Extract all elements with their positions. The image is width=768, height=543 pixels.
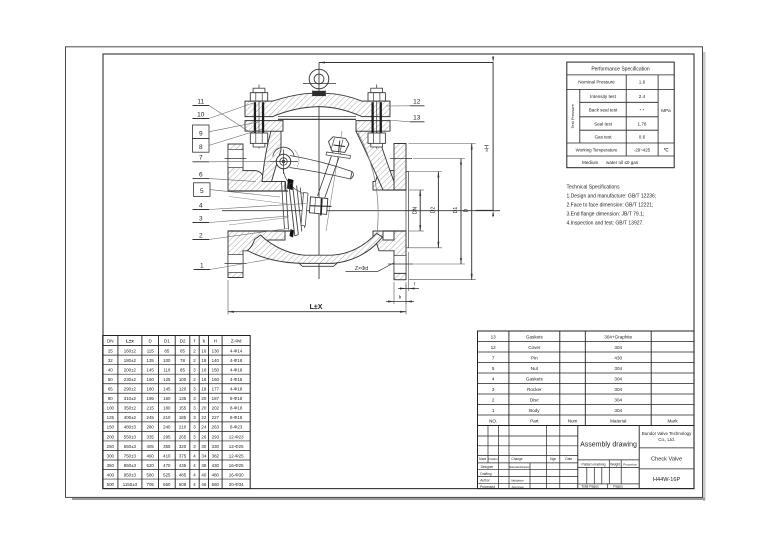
left bore lines	[228, 190, 288, 192]
svg-text:2.4: 2.4	[639, 94, 646, 99]
stem top nut	[329, 137, 350, 153]
dimension f	[408, 252, 410, 291]
svg-text:227: 227	[212, 415, 220, 420]
svg-text:150: 150	[107, 425, 115, 430]
outer border frame	[66, 47, 703, 498]
svg-text:177: 177	[212, 387, 220, 392]
svg-text:Sign: Sign	[550, 457, 557, 461]
svg-text:30: 30	[201, 444, 206, 449]
svg-text:8-Φ18: 8-Φ18	[230, 415, 243, 420]
left flange hatched lower	[228, 231, 285, 278]
svg-text:Intensity test: Intensity test	[590, 94, 617, 99]
svg-text:145: 145	[147, 368, 155, 373]
svg-text:46: 46	[201, 482, 206, 487]
svg-text:D2: D2	[431, 207, 437, 214]
svg-text:78: 78	[180, 358, 185, 363]
svg-text:115: 115	[147, 348, 155, 353]
dimension L line	[228, 311, 406, 313]
disc washer	[301, 193, 308, 227]
svg-text:650: 650	[163, 482, 171, 487]
svg-text:1: 1	[492, 408, 495, 413]
pipe axis centerline	[222, 210, 500, 212]
svg-text:Cover: Cover	[528, 345, 541, 350]
svg-text:480: 480	[212, 472, 220, 477]
svg-text:8-Φ23: 8-Φ23	[230, 425, 243, 430]
dimension D	[409, 143, 476, 145]
svg-text:293: 293	[212, 434, 220, 439]
svg-text:Approval: Approval	[512, 485, 524, 489]
left flange bolt circle ticks	[225, 158, 247, 160]
svg-text:950±3: 950±3	[124, 472, 137, 477]
svg-text:200: 200	[107, 434, 115, 439]
svg-text:20: 20	[201, 396, 206, 401]
svg-text:230±2: 230±2	[124, 377, 137, 382]
svg-text:120: 120	[179, 387, 187, 392]
svg-text:10: 10	[197, 111, 205, 118]
title block grid	[478, 426, 695, 489]
svg-text:Technical Specifications: Technical Specifications	[567, 185, 621, 191]
svg-text:263: 263	[212, 425, 220, 430]
svg-text:125: 125	[163, 377, 171, 382]
svg-text:187: 187	[212, 396, 220, 401]
rocker arm end boss	[351, 172, 354, 180]
svg-text:Rocker: Rocker	[527, 387, 542, 392]
svg-text:3: 3	[492, 387, 495, 392]
right flange hole bottom hatch	[394, 273, 406, 279]
hinge pin boss projection	[295, 150, 299, 167]
svg-text:Gaskets: Gaskets	[526, 334, 544, 339]
svg-text:240: 240	[163, 425, 171, 430]
svg-text:5: 5	[492, 366, 495, 371]
svg-text:Gaskets: Gaskets	[526, 376, 544, 381]
bonnet stud bolt right	[376, 85, 378, 149]
svg-text:12: 12	[491, 345, 497, 350]
svg-text:100: 100	[179, 377, 187, 382]
svg-text:18: 18	[201, 358, 206, 363]
bonnet stud bolt left	[258, 85, 260, 149]
svg-text:Drafting: Drafting	[480, 472, 491, 476]
svg-text:16: 16	[201, 348, 206, 353]
svg-text:Medium: Medium	[582, 160, 599, 165]
dimension table grid	[103, 336, 251, 489]
svg-text:- -: - -	[640, 107, 645, 113]
svg-text:D1: D1	[453, 207, 459, 214]
right flange hatched upper	[373, 144, 406, 191]
svg-text:130: 130	[212, 348, 220, 353]
part number 8 callout	[193, 139, 210, 153]
svg-text:500: 500	[107, 482, 115, 487]
svg-text:32: 32	[108, 358, 113, 363]
svg-text:1.Design and manufacture: GB/T: 1.Design and manufacture: GB/T 12236;	[567, 194, 657, 200]
svg-text:435: 435	[179, 463, 187, 468]
svg-text:350: 350	[107, 463, 115, 468]
seat seal lower black	[290, 229, 295, 238]
svg-text:140: 140	[212, 358, 220, 363]
svg-text:160±2: 160±2	[124, 348, 137, 353]
svg-text:12-Φ25: 12-Φ25	[229, 453, 244, 458]
hinge pin crosshair	[270, 161, 298, 163]
svg-text:20: 20	[201, 406, 206, 411]
svg-text:155: 155	[179, 406, 187, 411]
svg-text:18: 18	[201, 377, 206, 382]
svg-text:135: 135	[179, 396, 187, 401]
svg-text:400±2: 400±2	[124, 415, 137, 420]
right flange raised face	[406, 172, 409, 248]
svg-text:Validation: Validation	[511, 479, 524, 483]
svg-text:18: 18	[201, 387, 206, 392]
dimension H top line	[319, 62, 493, 64]
svg-text:160: 160	[163, 396, 171, 401]
svg-text:3: 3	[199, 215, 203, 222]
svg-text:110: 110	[163, 368, 171, 373]
left flange bolt hole upper	[228, 150, 243, 168]
svg-text:50: 50	[108, 377, 113, 382]
svg-text:Mark: Mark	[479, 457, 486, 461]
bill of materials table grid	[478, 331, 695, 426]
left flange hatched upper	[228, 144, 285, 191]
svg-text:100: 100	[107, 406, 115, 411]
disc nut crosshair	[310, 205, 332, 208]
svg-text:Processed: Processed	[480, 485, 495, 489]
svg-text:25: 25	[108, 348, 113, 353]
svg-text:300: 300	[107, 453, 115, 458]
svg-text:430: 430	[212, 463, 220, 468]
svg-text:2: 2	[492, 397, 495, 402]
svg-text:290±2: 290±2	[124, 387, 137, 392]
svg-text:b: b	[399, 295, 402, 301]
hinge pin	[276, 154, 290, 168]
svg-text:160: 160	[147, 377, 155, 382]
right bore lines	[383, 189, 406, 191]
svg-text:12: 12	[413, 98, 421, 105]
svg-text:Test Pressure: Test Pressure	[570, 103, 575, 128]
svg-text:16-Φ30: 16-Φ30	[229, 472, 244, 477]
svg-text:Material: Material	[610, 418, 626, 423]
svg-text:13: 13	[491, 334, 497, 339]
svg-text:4.Inspection and test: GB/T 13: 4.Inspection and test: GB/T 13927.	[567, 221, 644, 227]
svg-text:195: 195	[147, 396, 155, 401]
left flange bolt hole lower	[228, 255, 243, 273]
svg-text:Standardization: Standardization	[509, 465, 530, 469]
svg-text:38: 38	[201, 463, 206, 468]
svg-text:202: 202	[212, 406, 220, 411]
svg-text:705: 705	[147, 482, 155, 487]
svg-text:295: 295	[163, 434, 171, 439]
right body neck wall hatched	[356, 131, 394, 190]
svg-text:16-Φ25: 16-Φ25	[229, 463, 244, 468]
svg-text:Weight: Weight	[610, 462, 620, 466]
dimension DN	[409, 189, 424, 191]
svg-text:Pattern marking: Pattern marking	[582, 462, 606, 466]
svg-text:Proportion: Proportion	[623, 462, 637, 466]
svg-text:Part: Part	[530, 418, 539, 423]
svg-text:Pages: Pages	[613, 485, 623, 489]
svg-text:4-Φ18: 4-Φ18	[230, 377, 243, 382]
svg-text:0.6: 0.6	[639, 135, 646, 140]
svg-text:Working Temperature: Working Temperature	[576, 148, 618, 153]
svg-text:L±X: L±X	[310, 304, 323, 311]
svg-text:485: 485	[179, 472, 187, 477]
page shadow	[703, 52, 706, 501]
svg-text:≈H: ≈H	[484, 145, 490, 152]
svg-text:18: 18	[201, 368, 206, 373]
inlet taper lines	[229, 197, 287, 205]
svg-text:4: 4	[199, 202, 203, 209]
right interior chamber curve	[358, 133, 378, 234]
svg-text:410: 410	[163, 453, 171, 458]
svg-text:304: 304	[614, 397, 622, 402]
right flange hatched lower	[373, 231, 406, 280]
svg-text:Seal test: Seal test	[594, 121, 613, 126]
eyebolt ring	[309, 69, 329, 89]
svg-text:Nut: Nut	[531, 366, 539, 371]
body bottom wall hatched	[248, 233, 383, 263]
svg-text:85: 85	[164, 348, 169, 353]
dimension b	[393, 282, 395, 304]
svg-text:Co., Ltd.: Co., Ltd.	[658, 437, 675, 442]
svg-text:4-Φ18: 4-Φ18	[230, 368, 243, 373]
svg-text:1: 1	[200, 262, 204, 269]
svg-text:650±3: 650±3	[124, 444, 137, 449]
svg-text:335: 335	[147, 434, 155, 439]
right flange bolt circle ticks	[390, 158, 412, 160]
svg-text:12-Φ23: 12-Φ23	[229, 434, 244, 439]
svg-text:2: 2	[199, 232, 203, 239]
svg-text:11: 11	[197, 98, 204, 105]
svg-text:382: 382	[212, 453, 220, 458]
svg-text:NO.: NO.	[489, 418, 497, 423]
svg-text:Date: Date	[565, 457, 572, 461]
svg-text:355: 355	[163, 444, 171, 449]
svg-text:375: 375	[179, 453, 187, 458]
svg-text:4-Φ18: 4-Φ18	[230, 387, 243, 392]
svg-text:26: 26	[201, 434, 206, 439]
svg-text:DN: DN	[107, 338, 114, 343]
svg-text:180±2: 180±2	[124, 358, 137, 363]
svg-text:40: 40	[201, 472, 206, 477]
body top flange hatched left	[245, 121, 283, 132]
svg-text:304: 304	[614, 408, 622, 413]
seat ring	[282, 182, 285, 229]
svg-text:320: 320	[179, 444, 187, 449]
hinge pin boss	[273, 147, 294, 156]
eyebolt centerline	[303, 83, 336, 85]
svg-text:9: 9	[199, 130, 203, 137]
svg-text:1.6: 1.6	[639, 80, 646, 85]
svg-text:Total Pages: Total Pages	[581, 485, 599, 489]
svg-text:405: 405	[147, 444, 155, 449]
svg-text:65: 65	[108, 387, 113, 392]
svg-text:DN: DN	[413, 207, 419, 215]
svg-text:D1: D1	[164, 338, 170, 343]
svg-text:Bundor Valve Technology: Bundor Valve Technology	[642, 431, 692, 436]
svg-text:Position: Position	[488, 457, 499, 461]
body bottom pad	[299, 263, 337, 266]
svg-text:-29~425: -29~425	[634, 148, 651, 153]
svg-text:135: 135	[147, 358, 155, 363]
disc stem	[318, 150, 334, 196]
disc plate	[289, 184, 295, 236]
svg-text:525: 525	[163, 472, 171, 477]
svg-text:180: 180	[147, 387, 155, 392]
svg-text:480±3: 480±3	[124, 425, 137, 430]
inner border frame	[103, 54, 694, 489]
svg-text:Change: Change	[511, 457, 522, 461]
svg-text:H44W-16P: H44W-16P	[653, 477, 681, 483]
svg-text:6: 6	[199, 171, 203, 178]
svg-text:310±2: 310±2	[124, 396, 137, 401]
svg-text:Pin: Pin	[531, 355, 538, 360]
right flange bolt hole	[394, 255, 406, 273]
svg-text:8-Φ18: 8-Φ18	[230, 406, 243, 411]
svg-text:304+Graphite: 304+Graphite	[604, 334, 632, 339]
svg-text:850±3: 850±3	[124, 463, 137, 468]
svg-text:608: 608	[179, 482, 187, 487]
svg-text:5: 5	[200, 188, 204, 195]
svg-text:Back seal test: Back seal test	[589, 108, 618, 113]
svg-text:Performance Specification: Performance Specification	[591, 67, 650, 73]
svg-text:245: 245	[147, 415, 155, 420]
svg-text:Z-Φd: Z-Φd	[231, 338, 242, 343]
disc stem centerline	[326, 131, 342, 231]
svg-text:Designer: Designer	[481, 465, 495, 469]
svg-text:24: 24	[201, 425, 206, 430]
svg-text:Gas test: Gas test	[594, 135, 612, 140]
svg-text:4-Φ18: 4-Φ18	[230, 358, 243, 363]
eyebolt shank	[313, 91, 326, 96]
svg-text:Nominal Pressure: Nominal Pressure	[578, 80, 615, 85]
svg-text:560: 560	[212, 482, 220, 487]
svg-text:304: 304	[614, 366, 622, 371]
svg-text:200±2: 200±2	[124, 368, 137, 373]
body top flange hatched right	[356, 121, 390, 132]
dimension L extension lines	[227, 280, 229, 315]
svg-text:D2: D2	[180, 338, 186, 343]
svg-text:℃: ℃	[664, 148, 669, 153]
svg-text:22: 22	[201, 415, 206, 420]
svg-text:MPa: MPa	[661, 108, 671, 113]
svg-text:210: 210	[163, 415, 171, 420]
seat seal upper black	[287, 179, 294, 191]
svg-text:H: H	[214, 338, 217, 343]
svg-text:280: 280	[147, 425, 155, 430]
svg-text:520: 520	[147, 463, 155, 468]
svg-text:350±2: 350±2	[124, 406, 137, 411]
svg-text:460: 460	[147, 453, 155, 458]
svg-text:210: 210	[179, 425, 187, 430]
svg-text:180: 180	[163, 406, 171, 411]
svg-text:304: 304	[614, 387, 622, 392]
svg-text:250: 250	[107, 444, 115, 449]
title block middle cells	[578, 459, 639, 461]
svg-text:470: 470	[163, 463, 171, 468]
svg-text:750±3: 750±3	[124, 453, 137, 458]
svg-text:2.Face to face dimension: GB/T: 2.Face to face dimension: GB/T 12221;	[567, 203, 654, 209]
svg-text:185: 185	[179, 415, 187, 420]
svg-text:8-Φ18: 8-Φ18	[230, 396, 243, 401]
svg-text:12-Φ25: 12-Φ25	[229, 444, 244, 449]
svg-text:580: 580	[147, 472, 155, 477]
disc nut	[309, 197, 327, 215]
dimension H vertical line	[492, 63, 494, 211]
svg-text:304: 304	[614, 345, 622, 350]
svg-text:Disc: Disc	[530, 397, 540, 402]
bonnet gasket lines	[278, 115, 356, 117]
svg-text:330: 330	[212, 444, 220, 449]
svg-text:Body: Body	[529, 408, 540, 413]
svg-text:4-Φ14: 4-Φ14	[230, 348, 243, 353]
svg-text:1.76: 1.76	[638, 121, 647, 126]
dimension D1	[413, 158, 465, 160]
stem nut crosshair	[334, 145, 346, 147]
svg-text:7: 7	[199, 155, 203, 162]
title block company cells	[639, 447, 694, 449]
svg-text:150: 150	[212, 368, 220, 373]
rocker arm	[290, 156, 353, 180]
svg-text:304: 304	[614, 376, 622, 381]
svg-text:85: 85	[180, 368, 185, 373]
svg-text:Z×Φd: Z×Φd	[355, 266, 368, 272]
svg-text:7: 7	[492, 355, 495, 360]
left body neck wall hatched	[262, 131, 281, 181]
svg-text:40: 40	[108, 368, 113, 373]
svg-text:80: 80	[108, 396, 113, 401]
part number 9 callout	[193, 125, 210, 139]
svg-text:water oil ≤0 gas: water oil ≤0 gas	[606, 160, 639, 165]
svg-text:400: 400	[107, 472, 115, 477]
svg-text:145: 145	[163, 387, 171, 392]
svg-text:L±x: L±x	[126, 338, 134, 343]
svg-text:13: 13	[413, 114, 421, 121]
svg-text:Assembly drawing: Assembly drawing	[580, 442, 637, 449]
svg-text:160: 160	[212, 377, 220, 382]
svg-text:Author: Author	[480, 479, 490, 483]
svg-text:430: 430	[614, 355, 622, 360]
svg-text:550±3: 550±3	[124, 434, 137, 439]
svg-text:215: 215	[147, 406, 155, 411]
svg-text:265: 265	[179, 434, 187, 439]
svg-text:65: 65	[180, 348, 185, 353]
svg-text:20-Φ34: 20-Φ34	[229, 482, 244, 487]
dimension D2	[409, 171, 442, 173]
svg-text:34: 34	[201, 453, 206, 458]
svg-text:b: b	[203, 338, 206, 343]
performance specification table grid	[567, 62, 674, 168]
svg-text:8: 8	[199, 144, 203, 151]
svg-text:D: D	[464, 208, 470, 212]
part number 5 callout	[194, 183, 211, 197]
svg-text:3.End flange dimension: JB/T 7: 3.End flange dimension: JB/T 79.1;	[567, 212, 645, 218]
svg-text:Check Valve: Check Valve	[651, 457, 682, 463]
svg-text:Mark: Mark	[667, 418, 678, 423]
svg-text:Num: Num	[568, 418, 578, 423]
svg-text:125: 125	[107, 415, 115, 420]
svg-text:1150±3: 1150±3	[123, 482, 138, 487]
svg-text:4: 4	[492, 376, 495, 381]
valve vertical centerline	[318, 63, 320, 280]
svg-text:100: 100	[163, 358, 171, 363]
bonnet dome hatched	[245, 93, 390, 116]
stem nut washer	[326, 152, 351, 159]
